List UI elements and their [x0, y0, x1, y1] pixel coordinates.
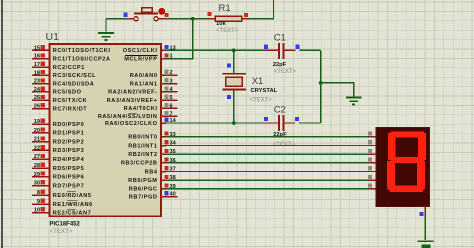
svg-text:15: 15 — [34, 45, 40, 51]
svg-text:RA3/AN3/VREF+: RA3/AN3/VREF+ — [107, 98, 158, 104]
svg-text:<TEXT>: <TEXT> — [50, 228, 73, 235]
svg-text:RE1/WR/AN6: RE1/WR/AN6 — [53, 202, 93, 208]
pin 1 right stub — [161, 58, 166, 60]
svg-text:RD0/PSP0: RD0/PSP0 — [53, 122, 84, 128]
pin 34 state square — [164, 140, 168, 144]
display pin stub segment g — [369, 188, 377, 190]
wire C2 to right vertical — [299, 122, 321, 124]
svg-text:17: 17 — [34, 62, 40, 68]
sheet border — [1, 0, 3, 248]
ground (oscillator) — [346, 98, 362, 105]
display pin state square g (gray) — [368, 184, 372, 188]
svg-text:28: 28 — [34, 163, 40, 169]
wire RB4 to display segment e — [166, 171, 369, 173]
svg-text:RD4/PSP4: RD4/PSP4 — [53, 157, 85, 163]
7-segment display body — [376, 128, 429, 207]
svg-text:25: 25 — [34, 95, 40, 101]
svg-text:RC2/CCP1: RC2/CCP1 — [53, 65, 85, 71]
pin 1 state square — [164, 53, 168, 57]
op? no: microcontroller U1 PIC18F452 body — [50, 44, 162, 216]
svg-text:C1: C1 — [274, 33, 286, 44]
svg-text:8: 8 — [37, 190, 40, 196]
pin 38 state square — [164, 175, 168, 179]
display pin stub segment d — [369, 162, 377, 164]
pin 10 (RE2) left stub — [32, 212, 49, 214]
svg-text:RD5/PSP5: RD5/PSP5 — [53, 166, 84, 172]
svg-text:5: 5 — [170, 95, 173, 101]
overline CS (RE2) — [67, 208, 76, 210]
pin 27 state square (red) — [41, 154, 45, 158]
pin 6 right stub — [161, 107, 177, 109]
svg-text:RB6/PGC: RB6/PGC — [129, 187, 158, 193]
svg-text:RD1/PSP1: RD1/PSP1 — [53, 131, 84, 137]
pin 2 state square — [164, 70, 168, 74]
pin 21 state square (red) — [41, 136, 45, 140]
pin 13 right stub — [161, 49, 166, 51]
display pin state square f (gray) — [368, 175, 372, 179]
overline RD (RE0) — [67, 191, 76, 193]
pin 4 right stub — [161, 91, 177, 93]
svg-text:RC0/T1OSO/T1CKI: RC0/T1OSO/T1CKI — [53, 48, 111, 54]
pin 9 (RE1) left stub — [32, 203, 49, 205]
svg-text:RD2/PSP2: RD2/PSP2 — [53, 139, 84, 145]
svg-text:RD7/PSP7: RD7/PSP7 — [53, 183, 84, 189]
pin 26 state square (red) — [41, 103, 45, 107]
svg-text:22: 22 — [34, 145, 40, 151]
pin 28 state square (red) — [41, 163, 45, 167]
wire ground to button left terminal — [106, 18, 131, 20]
svg-text:24: 24 — [34, 87, 41, 93]
wire RB1 to display segment b — [166, 145, 369, 147]
display pin stub segment a — [369, 136, 377, 138]
pin 8 state square (red) — [41, 190, 45, 194]
pin 15 (RC0) left stub — [32, 49, 49, 51]
svg-text:C2: C2 — [274, 104, 286, 115]
svg-text:RA6/OSC2/CLKO: RA6/OSC2/CLKO — [105, 121, 158, 127]
pin 23 state square (red) — [41, 78, 45, 82]
pin 35 right stub — [161, 153, 166, 155]
pin 33 right stub — [161, 136, 166, 138]
button actuator red dot — [158, 8, 165, 15]
pin 22 (RD3) left stub — [32, 149, 49, 151]
seg b (top-right) — [418, 133, 426, 160]
C2 left state square — [264, 117, 268, 121]
pin 25 (RC6) left stub — [32, 99, 49, 101]
pin 17 (RC2) left stub — [32, 66, 49, 68]
wire RB0 to display segment a — [166, 136, 369, 138]
junction crystal bottom — [232, 121, 236, 125]
svg-text:16: 16 — [34, 54, 40, 60]
pin 5 state square — [164, 95, 168, 99]
pin 9 state square (red) — [41, 199, 45, 203]
svg-text:RD6/PSP6: RD6/PSP6 — [53, 175, 84, 181]
pin 17 state square (red) — [41, 62, 45, 66]
pin 3 right stub — [161, 83, 177, 85]
display pin state square d (gray) — [368, 158, 372, 162]
pin 10 state square (red) — [41, 207, 45, 211]
wire RB3 to display segment d — [166, 162, 369, 164]
overline SS (RA5) — [129, 112, 137, 114]
pin 7 right stub — [161, 115, 177, 117]
svg-text:27: 27 — [34, 154, 40, 160]
svg-text:18: 18 — [34, 70, 40, 76]
junction node (MCLR net) — [191, 17, 195, 21]
svg-text:RA1/AN1: RA1/AN1 — [130, 81, 158, 87]
svg-text:6: 6 — [170, 103, 173, 109]
seg d (bottom) — [390, 186, 424, 192]
overline WR (RE1) — [67, 200, 77, 202]
svg-text:RA0/AN0: RA0/AN0 — [130, 73, 158, 79]
pin 16 state square (red) — [41, 53, 45, 57]
pin 14 right stub — [161, 122, 166, 124]
pin 14 state square — [164, 118, 168, 122]
svg-text:23: 23 — [34, 79, 40, 85]
pin 30 (RD7) left stub — [32, 185, 49, 187]
wire display to ground — [424, 216, 426, 240]
wire RB5 to display segment f — [166, 179, 369, 181]
svg-text:RD3/PSP3: RD3/PSP3 — [53, 148, 84, 154]
pin 5 right stub — [161, 99, 177, 101]
pin 37 right stub — [161, 171, 166, 173]
seg a (top) — [391, 131, 425, 137]
svg-text:<TEXT>: <TEXT> — [216, 28, 239, 34]
wire oscillator right vertical — [320, 50, 322, 123]
pin 19 state square (red) — [41, 119, 45, 123]
display pin state square a (gray) — [368, 132, 372, 136]
push button bar and cap — [134, 12, 158, 14]
svg-text:29: 29 — [34, 172, 40, 178]
pin 36 right stub — [161, 162, 166, 164]
svg-text:RB0/INT0: RB0/INT0 — [128, 135, 157, 141]
C1 left state square — [264, 45, 268, 49]
pin 40 right stub — [161, 196, 177, 198]
svg-text:20: 20 — [34, 128, 40, 134]
overline MCLR/VPP — [125, 54, 158, 56]
wire crystal bottom to pin14 net — [233, 91, 235, 124]
display pin stub segment b — [369, 145, 377, 147]
pin 35 state square — [164, 149, 168, 153]
svg-text:OSC1/CLKI: OSC1/CLKI — [123, 48, 158, 54]
svg-text:RB5/PGM: RB5/PGM — [128, 178, 157, 184]
wire C1 to right vertical — [300, 49, 321, 51]
pin 29 (RD6) left stub — [32, 176, 49, 178]
pin 18 state square (red) — [41, 70, 45, 74]
pin 39 right stub — [161, 188, 166, 190]
pin 19 (RD0) left stub — [32, 123, 49, 125]
crystal bottom state square — [227, 95, 231, 99]
button right state square (red) — [164, 13, 168, 17]
wire OSC2 pin14 to C2 — [166, 122, 264, 124]
pin 24 (RC5) left stub — [32, 91, 49, 93]
svg-text:22pF: 22pF — [273, 62, 287, 68]
svg-text:RB3/CCP2B: RB3/CCP2B — [121, 161, 158, 167]
pin 38 right stub — [161, 179, 166, 181]
pin 30 state square (red) — [41, 180, 45, 184]
display common pin — [424, 207, 426, 216]
pin 26 (RC7) left stub — [32, 108, 49, 110]
svg-text:RE0/RD/AN5: RE0/RD/AN5 — [53, 193, 92, 199]
pin 20 state square (red) — [41, 128, 45, 132]
pin 39 state square — [164, 184, 168, 188]
svg-text:R1: R1 — [219, 3, 231, 14]
svg-text:RC6/TX/CK: RC6/TX/CK — [53, 98, 87, 104]
svg-text:RE2/CS/AN7: RE2/CS/AN7 — [53, 210, 91, 216]
svg-text:RA5/AN4/SS/LVDIN: RA5/AN4/SS/LVDIN — [98, 114, 158, 120]
svg-text:RC1/T1OSI/CCP2A: RC1/T1OSI/CCP2A — [53, 57, 111, 63]
pin 24 state square (red) — [41, 87, 45, 91]
pin 7 state square — [164, 111, 168, 115]
C2 right state square — [295, 117, 299, 121]
display pin state square c (gray) — [368, 149, 372, 153]
svg-text:2: 2 — [170, 70, 173, 76]
svg-text:40: 40 — [170, 192, 176, 198]
pin 2 right stub — [161, 74, 177, 76]
svg-text:7: 7 — [170, 111, 173, 117]
capacitor C1 — [264, 49, 278, 51]
seg f (top-left) — [388, 133, 396, 160]
wire to oscillator ground — [321, 83, 354, 97]
svg-text:RB7/PGD: RB7/PGD — [129, 194, 158, 200]
button left state square (blue) — [124, 13, 128, 17]
display pin state square b (gray) — [368, 140, 372, 144]
display pin state square e (gray) — [368, 166, 372, 170]
wire junction down to crystal — [233, 50, 235, 73]
pin 18 (RC3) left stub — [32, 74, 49, 76]
svg-text:9: 9 — [37, 199, 40, 205]
R1 right state square — [244, 13, 248, 17]
pin 37 state square — [164, 166, 168, 170]
ground (display) — [418, 240, 434, 242]
pin 28 (RD5) left stub — [32, 167, 49, 169]
pin 21 (RD2) left stub — [32, 141, 49, 143]
junction crystal top — [232, 48, 236, 52]
svg-text:RC3/SCK/SCL: RC3/SCK/SCL — [53, 73, 96, 79]
svg-text:<TEXT>: <TEXT> — [274, 69, 297, 75]
display pin stub segment f — [369, 179, 377, 181]
svg-text:RB4: RB4 — [145, 169, 158, 175]
R1 left state square — [207, 12, 211, 16]
svg-text:RB2/INT2: RB2/INT2 — [128, 152, 157, 158]
svg-text:PIC18F452: PIC18F452 — [50, 222, 81, 228]
pin 20 (RD1) left stub — [32, 132, 49, 134]
svg-text:RA4/T0CKI: RA4/T0CKI — [124, 106, 158, 112]
svg-text:U1: U1 — [46, 31, 60, 43]
wire R1 to VCC (top edge) — [249, 0, 274, 19]
ground (button) — [98, 33, 114, 40]
push button SW terminals — [128, 18, 134, 20]
svg-text:RB1/INT1: RB1/INT1 — [128, 143, 157, 149]
svg-text:RC4/SDI/SDA: RC4/SDI/SDA — [53, 81, 94, 87]
wire button-left to ground — [105, 19, 107, 32]
seg c (bot-right) — [417, 161, 425, 190]
svg-text:21: 21 — [34, 137, 40, 143]
display pin stub segment c — [369, 153, 377, 155]
pin 33 state square — [164, 132, 168, 136]
resistor R1 — [208, 18, 216, 20]
svg-text:10k: 10k — [216, 21, 226, 27]
seg g (middle) — [391, 157, 425, 163]
pin 36 state square — [164, 158, 168, 162]
pin 40 state square — [164, 191, 168, 195]
pin 8 (RE0) left stub — [32, 194, 49, 196]
wire junction down to MCLR pin 1 — [166, 19, 193, 59]
pin 16 (RC1) left stub — [32, 58, 49, 60]
pin 34 right stub — [161, 145, 166, 147]
pin 23 (RC4) left stub — [32, 83, 49, 85]
svg-text:<TEXT>: <TEXT> — [250, 98, 273, 104]
pin 22 state square (red) — [41, 145, 45, 149]
display common state square (blue) — [419, 212, 423, 216]
pin 15 state square (red) — [41, 45, 45, 49]
svg-text:10: 10 — [34, 208, 40, 214]
svg-text:CRYSTAL: CRYSTAL — [251, 88, 278, 94]
wire OSC1 pin13 to C1 — [166, 49, 264, 51]
display pin stub segment e — [369, 171, 377, 173]
seg e (bot-left) — [387, 161, 395, 190]
pin 25 state square (red) — [41, 95, 45, 99]
pin 29 state square (red) — [41, 172, 45, 176]
svg-text:19: 19 — [34, 119, 40, 125]
wire RB2 to display segment c — [166, 153, 369, 155]
svg-text:X1: X1 — [252, 76, 264, 87]
junction to ground — [319, 81, 323, 85]
svg-text:26: 26 — [34, 104, 40, 110]
crystal top state square — [227, 64, 231, 68]
pin 3 state square — [164, 78, 168, 82]
wire button to R1 — [166, 18, 208, 20]
pin 27 (RD4) left stub — [32, 158, 49, 160]
pin 13 state square — [164, 45, 168, 49]
svg-text:RC5/SDO: RC5/SDO — [53, 90, 82, 96]
pin 4 state square — [164, 87, 168, 91]
svg-text:RC7/RX/DT: RC7/RX/DT — [53, 106, 88, 112]
svg-text:RA2/AN2/VREF-: RA2/AN2/VREF- — [108, 90, 157, 96]
wire RB6 to display segment g — [166, 188, 369, 190]
C1 right state square — [295, 45, 299, 49]
pin 6 state square — [164, 103, 168, 107]
svg-text:MCLR/VPP: MCLR/VPP — [124, 56, 157, 62]
svg-text:3: 3 — [170, 79, 173, 85]
svg-text:30: 30 — [34, 181, 40, 187]
